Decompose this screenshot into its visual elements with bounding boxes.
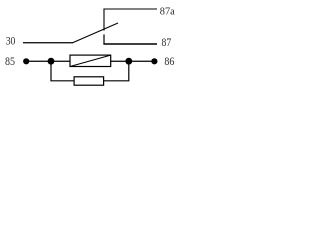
node 87 contact stub and wire [103,34,105,44]
svg-text:87a: 87a [160,5,175,17]
node 87a contact stub [104,9,157,31]
wire 30 horizontal [23,42,73,44]
wire parallel branch right rise [104,61,129,81]
terminal dot 86 [151,58,157,64]
wire 85 to coil [26,60,70,62]
junction node right [125,58,132,65]
relay coil K1 [70,55,111,66]
switch arm SW1 (30 common to 87a) [73,23,118,43]
junction node left [48,58,55,65]
svg-text:30: 30 [6,34,16,47]
svg-text:87: 87 [162,36,172,49]
wire parallel branch left drop [51,61,74,81]
resistor R1 across coil [74,77,104,85]
wire coil to 86 [111,60,155,62]
svg-text:85: 85 [5,55,15,68]
svg-text:86: 86 [164,55,174,68]
terminal dot 85 [23,58,29,64]
